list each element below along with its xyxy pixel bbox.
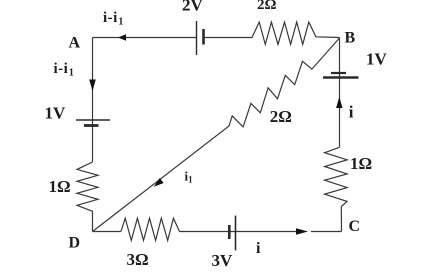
svg-text:1Ω: 1Ω bbox=[49, 177, 71, 196]
svg-text:C: C bbox=[349, 218, 361, 235]
svg-text:3V: 3V bbox=[212, 251, 234, 270]
svg-text:2Ω: 2Ω bbox=[270, 107, 292, 126]
svg-text:i: i bbox=[256, 240, 261, 257]
svg-text:A: A bbox=[69, 35, 81, 52]
svg-text:3Ω: 3Ω bbox=[127, 250, 149, 269]
svg-text:1V: 1V bbox=[366, 50, 388, 69]
svg-text:2Ω: 2Ω bbox=[257, 0, 277, 13]
svg-text:B: B bbox=[345, 29, 356, 46]
svg-text:2V: 2V bbox=[182, 0, 204, 15]
svg-text:1Ω: 1Ω bbox=[350, 154, 372, 173]
svg-text:i: i bbox=[349, 103, 354, 122]
svg-text:D: D bbox=[69, 235, 81, 252]
svg-text:1V: 1V bbox=[45, 103, 67, 122]
